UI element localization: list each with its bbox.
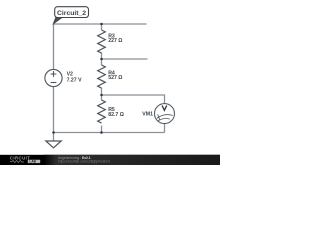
footer logo resistor squiggle <box>10 160 24 162</box>
svg-text:227 Ω: 227 Ω <box>108 38 122 44</box>
svg-text:http://circuitlab.com/c28qbjdm: http://circuitlab.com/c28qbjdmufuh3 <box>58 160 110 164</box>
svg-text:7.27 V: 7.27 V <box>67 78 83 84</box>
node junction ground <box>52 131 55 134</box>
wire resistor column leads <box>101 24 103 133</box>
resistor R3 <box>98 30 106 53</box>
node junction top of R3 <box>100 23 103 26</box>
node junction R5 bottom <box>100 131 103 134</box>
wire ground stub <box>53 133 55 142</box>
svg-text:82.7 Ω: 82.7 Ω <box>108 112 124 118</box>
svg-text:Circuit_2: Circuit_2 <box>57 10 86 17</box>
wire R3-R4 stub <box>102 58 148 60</box>
footer logo LAB box <box>28 160 40 163</box>
svg-text:V2: V2 <box>67 71 73 77</box>
voltmeter VM1 <box>155 104 175 124</box>
node junction R3/R4 <box>100 58 103 61</box>
wire R4-R5 to voltmeter <box>102 95 165 104</box>
wire top horizontal <box>54 23 147 25</box>
label Circuit_2 <box>53 7 89 25</box>
ground <box>46 141 61 148</box>
svg-text:527 Ω: 527 Ω <box>108 75 122 81</box>
wire left vertical <box>53 24 55 133</box>
resistor R5 <box>98 100 106 123</box>
svg-text:LAB: LAB <box>29 160 36 164</box>
wire voltmeter bottom lead <box>164 124 166 133</box>
svg-text:VM1: VM1 <box>142 112 153 118</box>
voltage source V2 <box>45 69 62 86</box>
wire bottom horizontal <box>54 132 165 134</box>
resistor R4 <box>98 65 106 88</box>
svg-text:CIRCUIT: CIRCUIT <box>10 155 31 160</box>
node junction R4/R5 <box>100 94 103 97</box>
